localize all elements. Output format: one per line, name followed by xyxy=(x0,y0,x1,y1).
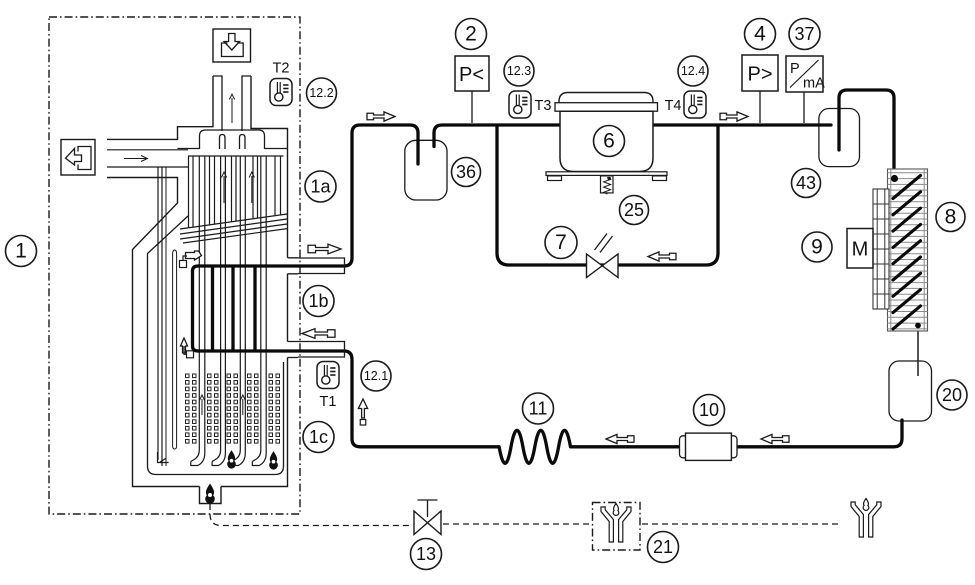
label circle 11 xyxy=(523,393,554,424)
label circle 1a xyxy=(305,171,336,202)
line condenser 8 to receiver 20 xyxy=(917,327,919,376)
svg-text:25: 25 xyxy=(624,200,644,220)
svg-text:7: 7 xyxy=(555,231,567,254)
label circle 2 xyxy=(456,19,487,50)
flue tubes descending with bottom bends xyxy=(191,156,266,466)
condensing surface matrix xyxy=(186,374,280,443)
label circle 12.3 xyxy=(504,56,534,86)
flow arrow discharge xyxy=(720,112,748,121)
label circle 4 xyxy=(745,19,776,50)
inner channel lines xyxy=(165,167,167,466)
temperature sensor T3 xyxy=(509,91,531,118)
label circle 37 xyxy=(789,19,820,50)
svg-text:6: 6 xyxy=(603,130,615,153)
svg-text:43: 43 xyxy=(796,173,816,193)
air intake symbol xyxy=(61,140,95,176)
condensate drain dashed line xyxy=(210,504,412,526)
svg-text:9: 9 xyxy=(811,236,823,259)
expansion loop with valve 7 xyxy=(497,126,718,265)
junction dot top of coil xyxy=(891,175,898,182)
tube sheet band xyxy=(178,149,288,157)
flue duct (chimney) xyxy=(213,76,251,131)
siphon box 21 xyxy=(593,503,641,551)
condenser coil in boiler + supply pipe to accumulator 36 xyxy=(198,125,418,266)
vibration damper spring 25 xyxy=(601,176,614,193)
svg-text:20: 20 xyxy=(942,385,962,405)
flow connection sleeve (supply) xyxy=(288,258,345,274)
upper HX tube bundle xyxy=(189,156,281,228)
svg-text:P>: P> xyxy=(747,64,772,86)
label circle 21 xyxy=(648,532,679,563)
svg-text:11: 11 xyxy=(529,399,548,419)
svg-text:12.1: 12.1 xyxy=(364,369,388,383)
heat exchanger header fingers xyxy=(200,130,265,149)
svg-text:T1: T1 xyxy=(320,394,337,410)
label circle 1c xyxy=(303,422,334,453)
condensate droplets xyxy=(227,450,236,468)
svg-text:T4: T4 xyxy=(665,98,682,114)
label circle 43 xyxy=(792,169,821,198)
svg-text:8: 8 xyxy=(945,206,957,229)
label circle 1b xyxy=(303,286,334,317)
drain shut-off valve 13 xyxy=(414,511,441,535)
label circle 7 xyxy=(545,227,577,259)
liquid line: 20 - filter 10 - coil 11 - boiler return xyxy=(198,351,902,463)
finned coil 8 xyxy=(888,169,928,331)
suction pipe from 36 to compressor and beyond xyxy=(434,125,831,147)
fan motor M xyxy=(847,229,873,269)
accumulator 36 xyxy=(405,140,447,200)
svg-text:mA: mA xyxy=(803,76,825,92)
mounting rail xyxy=(546,172,667,176)
flow connection sleeve (return) xyxy=(288,342,345,358)
receiver 43 xyxy=(819,109,860,167)
compressor 6 xyxy=(559,93,653,104)
unit 1 dash-dot boundary xyxy=(49,17,300,514)
svg-text:10: 10 xyxy=(699,400,719,420)
coil outlet arrow xyxy=(186,251,202,260)
svg-text:P<: P< xyxy=(459,64,484,86)
coil inlet arrow xyxy=(181,338,188,353)
discharge pipe 43 to condenser coil 8 xyxy=(839,90,894,176)
svg-text:T2: T2 xyxy=(273,61,290,77)
level mark xyxy=(158,452,169,463)
flow arrow into boiler xyxy=(302,329,335,339)
flow arrow liquid line left xyxy=(606,434,634,443)
label circle 20 xyxy=(937,380,967,410)
temperature sensor T4 xyxy=(684,91,706,118)
coil ladder rungs xyxy=(213,267,256,350)
svg-text:21: 21 xyxy=(653,537,673,557)
svg-text:P: P xyxy=(790,61,800,77)
label circle 6 xyxy=(594,126,625,157)
fan grid 9 xyxy=(873,189,889,309)
flue terminal symbol xyxy=(213,29,251,62)
temperature sensor T1 xyxy=(317,362,339,389)
svg-text:36: 36 xyxy=(456,162,476,182)
label circle 13 xyxy=(411,539,442,570)
pressure switch P> xyxy=(759,91,761,123)
svg-text:12.2: 12.2 xyxy=(309,86,333,100)
label circle 12.1 xyxy=(361,361,391,391)
tube return bends (perspective) xyxy=(180,214,288,243)
svg-text:M: M xyxy=(852,239,869,261)
label circle 9 xyxy=(802,232,832,262)
svg-text:13: 13 xyxy=(416,544,436,564)
tundish in box 21 xyxy=(601,503,631,542)
label circle 12.2 xyxy=(307,78,337,108)
label circle 10 xyxy=(694,395,725,426)
svg-text:T3: T3 xyxy=(535,98,552,114)
label circle 36 xyxy=(452,158,481,187)
boiler inner wall xyxy=(148,216,284,475)
pressure switch P< xyxy=(471,91,473,123)
boiler body outline xyxy=(107,76,288,487)
air flow arrow in duct xyxy=(124,156,148,162)
svg-text:1: 1 xyxy=(15,240,27,263)
svg-text:1a: 1a xyxy=(310,177,331,197)
svg-text:1b: 1b xyxy=(308,291,328,311)
expansion valve 7 xyxy=(587,254,619,278)
flue gas arrow up in chimney xyxy=(231,98,233,123)
receiver 20 xyxy=(889,361,932,421)
label circle 8 xyxy=(936,203,965,232)
svg-text:1c: 1c xyxy=(309,427,328,447)
label circle 25 xyxy=(620,196,649,225)
svg-text:4: 4 xyxy=(754,23,766,46)
svg-text:37: 37 xyxy=(794,24,814,44)
label circle 12.4 xyxy=(678,56,708,86)
flow arrow up to boiler return xyxy=(358,399,367,418)
foot left xyxy=(548,176,562,181)
label circle 1 xyxy=(6,236,37,267)
svg-text:2: 2 xyxy=(465,23,477,46)
temperature sensor T2 xyxy=(270,79,292,106)
condensate trap xyxy=(200,487,222,504)
filter drier 10 xyxy=(680,436,689,458)
flue gas arrows in tubes xyxy=(223,176,225,203)
air duct xyxy=(107,150,188,466)
svg-text:12.3: 12.3 xyxy=(507,64,531,78)
svg-text:12.4: 12.4 xyxy=(681,64,705,78)
flow arrow in expansion loop xyxy=(648,252,676,261)
flow arrow liquid line right xyxy=(761,434,789,443)
flow arrow out of boiler xyxy=(308,244,341,254)
pressure transmitter P/mA xyxy=(803,92,805,123)
junction dot bottom of coil xyxy=(915,323,921,329)
foot right xyxy=(653,176,667,181)
external tundish xyxy=(851,498,881,537)
flow arrow supply top xyxy=(367,112,395,121)
